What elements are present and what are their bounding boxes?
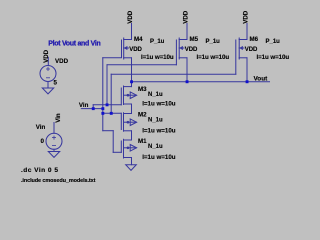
svg-text:M4: M4: [134, 36, 143, 43]
svg-text:5: 5: [54, 80, 58, 87]
svg-text:l=1u w=10u: l=1u w=10u: [142, 127, 176, 134]
svg-text:Plot Vout and Vin: Plot Vout and Vin: [48, 40, 100, 47]
svg-text:Vin: Vin: [36, 124, 46, 131]
svg-text:l=1u w=10u: l=1u w=10u: [141, 54, 174, 61]
svg-text:.include cmosedu_models.txt: .include cmosedu_models.txt: [21, 178, 96, 184]
svg-text:M3: M3: [138, 86, 147, 93]
svg-text:VDD: VDD: [242, 10, 249, 24]
svg-text:VDD: VDD: [127, 10, 134, 24]
svg-text:VDD: VDD: [182, 10, 189, 24]
svg-text:M6: M6: [250, 36, 259, 43]
svg-text:M5: M5: [190, 36, 199, 43]
svg-text:P_1u: P_1u: [206, 39, 221, 45]
svg-text:N_1u: N_1u: [148, 144, 163, 150]
svg-text:l=1u w=10u: l=1u w=10u: [142, 100, 176, 107]
svg-text:0: 0: [41, 138, 45, 145]
svg-text:Vin: Vin: [55, 113, 62, 123]
svg-text:l=1u w=10u: l=1u w=10u: [197, 54, 230, 61]
svg-text:VDD: VDD: [245, 47, 258, 53]
svg-text:P_1u: P_1u: [150, 39, 165, 45]
svg-text:P_1u: P_1u: [266, 39, 281, 45]
svg-text:VDD: VDD: [55, 58, 69, 65]
svg-text:l=1u w=10u: l=1u w=10u: [257, 54, 290, 61]
svg-text:VDD: VDD: [129, 47, 142, 53]
svg-text:VDD: VDD: [185, 47, 198, 53]
svg-text:l=1u w=10u: l=1u w=10u: [142, 154, 176, 161]
svg-text:.dc Vin 0 5: .dc Vin 0 5: [21, 167, 58, 174]
svg-text:M1: M1: [138, 138, 147, 145]
svg-text:M2: M2: [138, 112, 147, 119]
svg-text:N_1u: N_1u: [148, 92, 163, 98]
svg-text:N_1u: N_1u: [148, 118, 163, 124]
svg-text:Vin: Vin: [79, 102, 89, 109]
svg-text:Vout: Vout: [254, 75, 269, 82]
svg-text:VDD: VDD: [43, 49, 50, 63]
